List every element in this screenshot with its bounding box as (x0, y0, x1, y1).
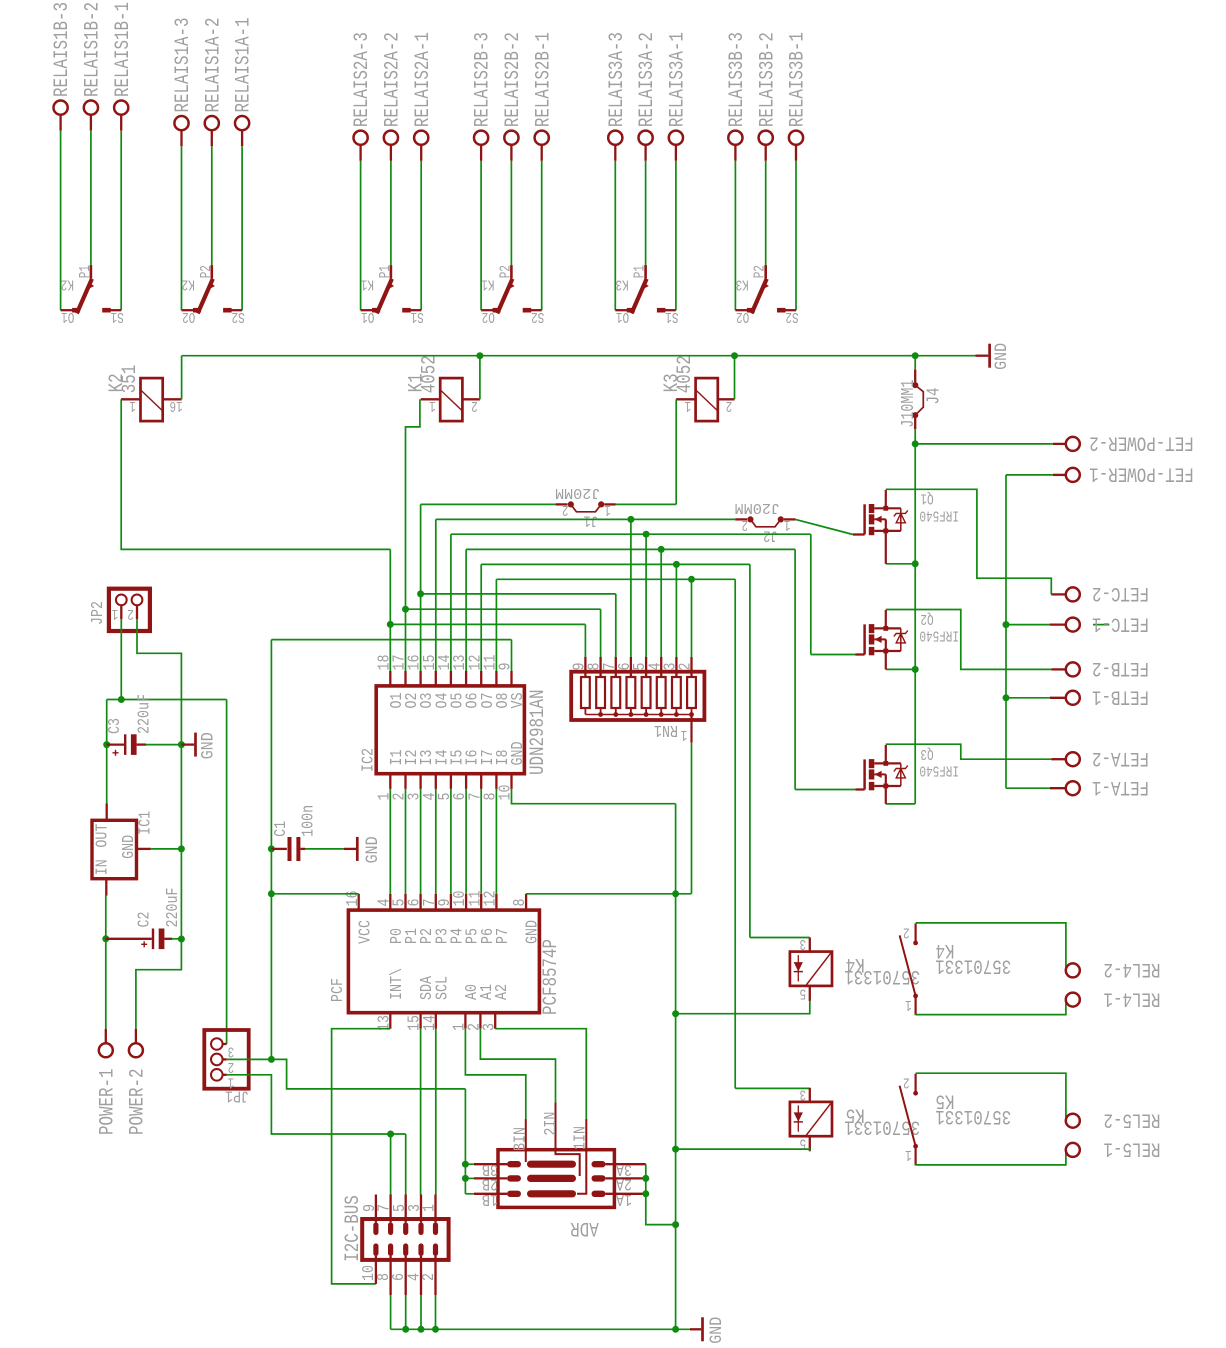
svg-text:C2: C2 (134, 912, 153, 928)
svg-text:RELAIS2B-1: RELAIS2B-1 (532, 32, 555, 127)
PCF pin 10 P5 (465, 894, 467, 910)
switch K2 contact O2 (182, 309, 194, 311)
svg-text:IC2: IC2 (359, 748, 378, 772)
pad RELAIS3B-1 (789, 131, 803, 145)
I2C-BUS pad pin 9 (373, 1222, 378, 1235)
junction top rail / K1 (476, 352, 483, 359)
pad FETB-2 (1051, 668, 1066, 670)
svg-text:ADR: ADR (570, 1216, 599, 1239)
svg-text:S1: S1 (111, 308, 124, 324)
resistor network RN1 body (571, 672, 704, 720)
svg-text:RELAIS3A-2: RELAIS3A-2 (636, 32, 659, 127)
svg-text:GND: GND (199, 732, 219, 759)
wire RELAIS1A-3 to switch O (181, 146, 183, 310)
svg-text:IRF540: IRF540 (919, 506, 959, 522)
transistor Q3 IRF540 (863, 759, 866, 789)
switch K3 contact P1 (644, 265, 647, 279)
RN1 resistor pin 3 (675, 657, 677, 677)
svg-text:IRF540: IRF540 (919, 761, 959, 777)
svg-text:FETC-1: FETC-1 (1092, 611, 1149, 634)
svg-text:UDN2981AN: UDN2981AN (527, 690, 550, 776)
RN1 resistor pin 9 (584, 657, 586, 677)
svg-text:2: 2 (562, 501, 569, 517)
pad RELAIS3A-2 (639, 131, 653, 145)
junction GND / K5 coil (672, 1146, 679, 1153)
svg-text:RELAIS2B-3: RELAIS2B-3 (472, 32, 495, 127)
switch K1 contact P1 (390, 265, 393, 279)
svg-text:PCF8574P: PCF8574P (540, 939, 563, 1015)
svg-text:1A: 1A (616, 1190, 632, 1209)
ADR pads 3B 2B 1B stubs (474, 1163, 507, 1165)
I2C-BUS pin 9 stub (375, 1195, 377, 1223)
svg-text:RN1: RN1 (654, 721, 678, 740)
junction IC2 pin16 branch (417, 590, 424, 597)
svg-text:35701331: 35701331 (935, 1104, 1011, 1127)
capacitor C3 220uF (107, 743, 124, 745)
IC2 pin 8 I8 (495, 774, 497, 789)
svg-text:1: 1 (905, 996, 912, 1012)
junction GND / C3 (178, 741, 185, 748)
wire VCC down to IC1 OUT (106, 700, 108, 804)
pad RELAIS2A-2 (384, 131, 398, 145)
svg-text:2: 2 (228, 1058, 235, 1074)
wire RELAIS2A-3 to switch O (360, 161, 362, 310)
svg-text:RELAIS3A-3: RELAIS3A-3 (606, 32, 629, 127)
switch K2 contact S1 (110, 309, 121, 311)
svg-text:351: 351 (119, 365, 142, 394)
junction GND / ADR A (672, 1221, 679, 1228)
switch K3 contact O2 (735, 309, 747, 311)
junction B column 2B (462, 1175, 469, 1182)
svg-text:JP1: JP1 (225, 1087, 249, 1106)
I2C-BUS pad pin 8 (388, 1243, 393, 1256)
svg-text:K3: K3 (736, 275, 749, 291)
pad FETC-2 (1051, 593, 1066, 595)
svg-text:IC1: IC1 (135, 811, 154, 835)
op-amp PCF8574P body (348, 910, 539, 1013)
wire K1 pin1 to IC2 pin17 (406, 399, 420, 671)
wire I2C pin6 to GND rail (405, 1295, 407, 1329)
svg-text:RELAIS1A-3: RELAIS1A-3 (172, 18, 195, 113)
svg-text:1: 1 (784, 516, 791, 532)
wire RN1 pin1 to GND net (691, 743, 693, 894)
op-amp IC2 UDN2981AN body (376, 686, 524, 774)
svg-text:220uF: 220uF (134, 694, 153, 734)
junction VCC / C3 (103, 741, 110, 748)
svg-text:P2: P2 (199, 265, 215, 278)
svg-text:2: 2 (676, 663, 695, 671)
svg-text:JP2: JP2 (88, 601, 107, 625)
I2C-BUS pad pin 2 (433, 1243, 438, 1256)
PCF pin 15 SDA (419, 1013, 421, 1029)
IC2 pin 14 O5 (450, 671, 452, 686)
wire K5 switch pin1 to REL5-1 (916, 1150, 1066, 1166)
svg-text:1: 1 (129, 397, 136, 413)
I2C-BUS pin 10 stub (375, 1256, 377, 1284)
svg-text:IRF540: IRF540 (919, 626, 959, 642)
switch K3 contact P2 (764, 265, 767, 279)
pin stub RELAIS3A-1 (675, 145, 677, 161)
svg-text:3: 3 (800, 935, 807, 951)
wire IC2 pin10 GND (512, 789, 676, 804)
pad RELAIS1A-3 (174, 116, 188, 130)
ground GND top right (975, 355, 988, 357)
svg-text:GND: GND (119, 835, 138, 859)
PCF pin 6 P2 (419, 894, 421, 910)
wire IC2 pin18 column (389, 549, 391, 671)
pad RELAIS2A-1 (414, 131, 428, 145)
wire RELAIS2B-2 to switch P (510, 161, 512, 265)
wire PCF A0 to ADR BIN (465, 1029, 525, 1119)
PCF pin 3 A2 (494, 1013, 496, 1029)
svg-text:16: 16 (170, 397, 183, 413)
junction IC2 pin17 branch (402, 606, 409, 613)
IC2 pin 1 I1 (389, 774, 391, 789)
svg-text:FETA-2: FETA-2 (1092, 746, 1149, 769)
svg-text:RELAIS2B-2: RELAIS2B-2 (502, 32, 525, 127)
svg-text:RELAIS2A-2: RELAIS2A-2 (382, 32, 405, 127)
I2C-BUS pad pin 3 (418, 1222, 423, 1235)
svg-text:GND: GND (523, 920, 542, 944)
pin stub RELAIS3B-3 (734, 145, 736, 161)
wire Q2 gate riser (810, 534, 812, 654)
svg-text:FETA-1: FETA-1 (1092, 775, 1149, 798)
JP1 pin3 stub (223, 1043, 227, 1045)
pad RELAIS2B-1 (535, 131, 549, 145)
svg-text:4052: 4052 (674, 355, 697, 393)
svg-text:2: 2 (127, 605, 134, 621)
I2C-BUS pad pin 1 (433, 1222, 438, 1235)
wire Q2 source (886, 668, 915, 670)
pad RELAIS3A-1 (669, 131, 683, 145)
svg-text:PCF: PCF (328, 978, 347, 1002)
pin stub RELAIS1A-2 (211, 130, 213, 146)
junction VCC / C1 (268, 845, 275, 852)
IC2 pin 5 I5 (450, 774, 452, 789)
K4 coil pin 5 (809, 986, 811, 1001)
svg-text:14: 14 (420, 1015, 439, 1031)
wire VCC rail JP2/JP1 (107, 699, 227, 701)
switch K2 contact O1 (61, 309, 73, 311)
switch K3 contact S2 (785, 309, 796, 311)
IC2 pin 3 I3 (419, 774, 421, 789)
svg-text:2: 2 (471, 397, 478, 413)
svg-text:1: 1 (112, 605, 119, 621)
K2 pin 1 (121, 398, 140, 400)
svg-text:J20MM: J20MM (555, 484, 601, 501)
wire I2C pin7 down (390, 1134, 392, 1195)
pin stub RELAIS3A-2 (644, 145, 646, 161)
wire PCF INT to I2C pin10 (332, 1029, 391, 1284)
svg-text:J2: J2 (763, 526, 778, 544)
PCF pin 12 P7 (495, 894, 497, 910)
svg-text:FETB-1: FETB-1 (1092, 685, 1149, 708)
pad RELAIS1B-3 (54, 101, 68, 115)
svg-text:1: 1 (681, 726, 688, 742)
K2 pin 16 (163, 398, 182, 400)
junction GND / bottom rail (672, 1326, 679, 1333)
switch K1 contact O1 (361, 309, 373, 311)
PCF pin 2 A1 (479, 1013, 481, 1029)
pin stub RELAIS3B-2 (765, 145, 767, 161)
IC2 pin 2 I2 (404, 774, 406, 789)
svg-text:P1: P1 (378, 265, 394, 278)
wire VCC column (270, 640, 272, 1060)
svg-text:FETB-2: FETB-2 (1092, 656, 1149, 679)
ADR 1IN pin (577, 1119, 586, 1194)
pin stub RELAIS1B-2 (90, 114, 92, 130)
IC2 pin 7 I7 (480, 774, 482, 789)
wire VCC to PCF pin16 (271, 893, 358, 895)
svg-text:RELAIS3A-1: RELAIS3A-1 (667, 32, 690, 127)
pin stub RELAIS1A-3 (180, 130, 182, 146)
junction top rail / K3 (731, 352, 738, 359)
RN1 resistor pin 6 (630, 657, 632, 677)
junction RN1 pin3 (673, 561, 680, 568)
svg-text:FET-POWER-1: FET-POWER-1 (1089, 462, 1194, 485)
svg-text:O2: O2 (182, 308, 195, 324)
junction RN1 pin6 (627, 516, 634, 523)
wire K1 pin2 riser (479, 356, 481, 400)
pad RELAIS2B-3 (474, 131, 488, 145)
RN1 resistor pin 4 (660, 657, 662, 677)
wire RELAIS1B-3 to switch O (60, 131, 62, 311)
junction Q2 source (912, 666, 919, 673)
svg-text:5: 5 (800, 1135, 807, 1151)
svg-text:Q2: Q2 (920, 610, 933, 626)
switch K3 contact O1 (615, 309, 627, 311)
svg-text:2: 2 (419, 1273, 438, 1281)
wire RELAIS3B-1 to switch S (795, 161, 797, 310)
K5 coil pin 3 (809, 1088, 811, 1102)
junction IC2 pin18 branch (387, 621, 394, 628)
svg-text:S2: S2 (232, 308, 245, 324)
wire K5 switch pin2 to REL5-2 (916, 1073, 1066, 1121)
svg-text:1: 1 (604, 501, 611, 517)
switch K2 contact P2 (211, 265, 214, 279)
svg-text:RELAIS1B-1: RELAIS1B-1 (112, 2, 135, 97)
junction rail / pin6 (402, 1326, 409, 1333)
transistor Q2 drain wire to FETB-2 (886, 610, 1052, 670)
PCF pin 7 P3 (435, 894, 437, 910)
pad REL5-2 (1065, 1120, 1068, 1122)
wire J4 to FET-POWER-2 node (914, 429, 916, 444)
switch K2 contact S2 (231, 309, 242, 311)
I2C-BUS pin 8 stub (389, 1256, 391, 1295)
svg-text:O2: O2 (482, 308, 495, 324)
PCF pin 9 P4 (450, 894, 452, 910)
wire Q3 gate (795, 789, 855, 791)
junction POWER-1 / C2 (102, 935, 109, 942)
svg-text:FET-POWER-2: FET-POWER-2 (1089, 431, 1194, 454)
svg-text:220uF: 220uF (163, 888, 182, 928)
pad POWER-1 (105, 1029, 107, 1044)
svg-text:POWER-2: POWER-2 (127, 1069, 150, 1136)
svg-text:IN: IN (92, 859, 111, 875)
junction VCC / PCF VCC (268, 890, 275, 897)
RN1 pin 1 (690, 715, 692, 743)
wire K2 pin1 to IC2 pin18 (121, 399, 390, 549)
svg-text:3: 3 (479, 1023, 498, 1031)
IC2 pin 10 GND (510, 774, 512, 789)
svg-text:GND: GND (707, 1317, 727, 1344)
capacitor C2 220uF (106, 938, 152, 940)
pin stub RELAIS2B-2 (510, 145, 512, 161)
svg-text:BIN: BIN (511, 1127, 530, 1151)
wire VCC rail to JP1 pin3 (226, 700, 228, 1045)
wire JP2 pin1 (120, 605, 122, 619)
pad RELAIS1A-2 (205, 116, 219, 130)
pin stub RELAIS2A-2 (390, 145, 392, 161)
junction FETC-1 (1003, 621, 1010, 628)
jumper J4 J10MM1 (914, 356, 916, 370)
wire RELAIS2B-1 to switch S (541, 161, 543, 310)
junction B column 3B (462, 1161, 469, 1168)
transistor Q1 IRF540 (863, 504, 866, 534)
relay switch K4 (914, 923, 916, 942)
svg-text:K1: K1 (481, 275, 494, 291)
svg-text:8: 8 (510, 899, 529, 907)
svg-text:2IN: 2IN (541, 1112, 560, 1136)
svg-text:VS: VS (508, 692, 527, 708)
svg-text:OUT: OUT (92, 824, 111, 848)
junction VCC / JP1 pin2 (268, 1056, 275, 1063)
K5 coil pin 5 (809, 1136, 811, 1151)
svg-text:P2: P2 (753, 265, 769, 278)
junction top rail / J4 (912, 352, 919, 359)
switch K1 contact S2 (531, 309, 542, 311)
junction GND / IC1 (178, 845, 185, 852)
svg-text:FETC-2: FETC-2 (1092, 581, 1149, 604)
IC2 pin 12 O7 (480, 671, 482, 686)
svg-text:16: 16 (343, 891, 362, 907)
wire GND to POWER-2 (136, 939, 182, 1029)
wire VS to IC2 pin9 (271, 639, 511, 641)
wire PCF A1 to ADR 2IN (480, 1029, 555, 1103)
I2C-BUS pad pin 6 (403, 1243, 408, 1256)
svg-text:Q1: Q1 (920, 490, 933, 506)
svg-text:GND: GND (992, 343, 1012, 370)
pin stub RELAIS2B-3 (480, 145, 482, 161)
wire Q1 gate from J2 (795, 519, 853, 534)
junction RN1 pin5 (643, 531, 650, 538)
wire IC2 pin13 to Q3 gate (465, 549, 467, 671)
ADR pads 3A 2A 1A stubs (606, 1163, 646, 1165)
ADR 2IN pin (556, 1102, 580, 1176)
wire K4 switch pin2 to REL4-2 (916, 923, 1066, 971)
IC1 GND pin (137, 848, 151, 850)
relay coil K1 4052 (440, 378, 462, 421)
wire IC2 outputs to PCF inputs (389, 789, 391, 894)
wire bottom GND rail (391, 1328, 690, 1330)
wire J1 to K3 pin1 (616, 503, 676, 505)
wire IC2 pin11 to K5 (495, 579, 497, 671)
ADR center pads (527, 1161, 576, 1168)
wire RELAIS1A-2 to switch P (211, 146, 213, 265)
wire FET drain-return rail (1005, 475, 1007, 788)
RN1 resistor pin 2 (690, 657, 692, 677)
svg-text:P7: P7 (493, 928, 512, 944)
wire ADR B column (464, 1089, 466, 1194)
wire IC2 pin15 to J2 (435, 519, 437, 671)
svg-text:O1: O1 (616, 308, 629, 324)
junction rail / pin4 (418, 1326, 425, 1333)
svg-text:O1: O1 (361, 308, 374, 324)
pad REL4-1 (1066, 993, 1080, 1007)
pad FETC-1 (1006, 624, 1050, 626)
wire IC2 pin14 to Q2 gate (450, 534, 452, 671)
switch K2 contact P1 (90, 265, 93, 279)
PCF pin 16 VCC (358, 894, 360, 910)
wire PCF A2 to ADR 1IN (495, 1029, 586, 1119)
I2C-BUS pin 4 stub (420, 1256, 422, 1295)
I2C-BUS pad pin 7 (388, 1222, 393, 1235)
svg-text:4052: 4052 (419, 355, 442, 393)
I2C-BUS pad pin 4 (418, 1243, 423, 1256)
IC2 pin 13 O6 (465, 671, 467, 686)
svg-text:2: 2 (726, 397, 733, 413)
svg-text:1IN: 1IN (571, 1126, 590, 1150)
wire RELAIS2A-2 to switch P (390, 161, 392, 265)
K3 pin 1 (676, 398, 695, 400)
wire RELAIS1A-1 to switch S (241, 146, 243, 310)
svg-text:VCC: VCC (355, 920, 374, 944)
K1 pin 1 (421, 398, 440, 400)
svg-text:RELAIS3B-1: RELAIS3B-1 (787, 32, 810, 127)
K4 coil pin 3 (809, 938, 811, 952)
svg-text:100n: 100n (298, 805, 317, 837)
IC1 IN pin (105, 879, 107, 896)
junction FETB-1 (1003, 694, 1010, 701)
svg-text:K2: K2 (182, 275, 195, 291)
svg-text:1: 1 (685, 397, 692, 413)
pad REL4-2 (1065, 969, 1068, 971)
PCF pin 11 P6 (480, 894, 482, 910)
IC2 pin 11 O8 (495, 671, 497, 686)
wire top GND rail (182, 355, 976, 357)
junction JP1 pin1 / I2C pin7 (387, 1131, 394, 1138)
svg-text:S2: S2 (785, 308, 798, 324)
svg-text:A2: A2 (492, 984, 511, 1000)
svg-text:RELAIS3B-2: RELAIS3B-2 (756, 32, 779, 127)
junction VCC / JP2 pin1 (118, 696, 125, 703)
switch K1 contact O2 (481, 309, 493, 311)
junction GND / K4 coil (672, 1010, 679, 1017)
wire branch to RN1 pin8 (406, 608, 601, 610)
svg-text:P1: P1 (78, 265, 94, 278)
junction A column 1A (642, 1190, 649, 1197)
relay coil K5 35701331 (790, 1102, 832, 1136)
wire FET source rail (914, 444, 916, 804)
wire IC2 pin16 column (420, 504, 422, 671)
pin stub RELAIS2A-3 (359, 145, 361, 161)
pad REL5-1 (1066, 1143, 1080, 1157)
pad FET-POWER-1 (1066, 468, 1080, 482)
wire Q2 gate (811, 654, 855, 656)
PCF pin 1 A0 (464, 1013, 466, 1029)
wire PCF pin8 GND (526, 893, 691, 895)
wire branch to RN1 pin9 (390, 623, 585, 625)
pin stub RELAIS3B-1 (795, 145, 797, 161)
IC2 pin 15 O4 (435, 671, 437, 686)
svg-text:1: 1 (905, 1146, 912, 1162)
svg-text:RELAIS1B-3: RELAIS1B-3 (51, 2, 74, 97)
junction GND / C2 (178, 936, 185, 943)
svg-text:GND: GND (363, 836, 383, 863)
wire K3 pin2 riser (734, 356, 736, 400)
svg-text:J20MM: J20MM (735, 499, 781, 516)
svg-text:P2: P2 (498, 265, 514, 278)
